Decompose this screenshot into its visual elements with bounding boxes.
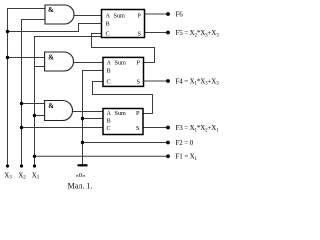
svg-text:«0»: «0»: [76, 172, 86, 179]
svg-text:F3 = X1*X2+X1: F3 = X1*X2+X1: [176, 124, 220, 133]
svg-text:Мал. 1.: Мал. 1.: [68, 181, 93, 190]
svg-text:S: S: [138, 30, 142, 37]
svg-text:&: &: [48, 54, 54, 61]
AND gate D2: [45, 52, 74, 71]
svg-text:A: A: [107, 110, 112, 117]
svg-text:F1 = X1: F1 = X1: [176, 153, 198, 162]
node X3-B1 junction: [6, 30, 9, 33]
wire X3 rail: [8, 9, 46, 167]
svg-text:F2 = 0: F2 = 0: [176, 139, 194, 147]
node zero-B3 junction: [81, 117, 84, 120]
wire zero rail: [83, 71, 104, 166]
svg-text:C: C: [106, 30, 110, 37]
svg-text:P: P: [137, 59, 141, 66]
node X3 input terminal: [6, 164, 9, 167]
wire F1 output line: [35, 155, 169, 157]
node F2 terminal: [166, 141, 170, 145]
node X1-D3 junction: [33, 114, 36, 117]
svg-text:Sum: Sum: [114, 12, 126, 19]
node X2-C3 junction: [20, 126, 23, 129]
svg-text:A: A: [106, 12, 111, 19]
svg-text:F5 = X2*X3+X3: F5 = X2*X3+X3: [176, 29, 220, 38]
wire X2 to Sum3 C input: [22, 127, 104, 129]
svg-text:B: B: [107, 118, 111, 125]
node F3 terminal: [166, 126, 170, 130]
node X3-D2 junction: [6, 56, 9, 59]
wire F2 output line: [83, 142, 169, 144]
wire gate D3 output to Sum3 A: [73, 111, 104, 113]
wire X3 to gate D2 input 1: [8, 57, 45, 59]
wire F6 output line: [145, 13, 169, 15]
svg-text:B: B: [107, 68, 111, 75]
wire X3 to Sum1 B input: [8, 24, 102, 32]
svg-text:S: S: [136, 125, 140, 132]
wire X1 rail: [35, 37, 102, 167]
wire X1 to gate D3 input 2: [35, 115, 45, 117]
wire F4 output line: [144, 80, 169, 82]
wire gate D2 output to Sum2 A: [74, 62, 104, 64]
node X1-F1 junction: [33, 155, 36, 158]
svg-text:P: P: [138, 12, 142, 19]
svg-text:F6: F6: [176, 10, 184, 18]
node F5 terminal: [166, 31, 170, 35]
svg-text:C: C: [107, 79, 111, 86]
svg-text:&: &: [48, 7, 54, 14]
svg-text:B: B: [106, 20, 110, 27]
node X1 input terminal: [33, 164, 36, 167]
wire F3 output line: [143, 127, 168, 129]
svg-text:F4 = X1*X3+X3: F4 = X1*X3+X3: [176, 77, 220, 86]
svg-text:Sum: Sum: [115, 59, 127, 66]
wire Sum2 P to Sum1 C carry loop: [92, 34, 155, 63]
wire F5 output line: [145, 32, 169, 34]
wire X2 to gate D3 input 1: [22, 103, 45, 105]
node F1 terminal: [166, 154, 170, 158]
wire X1 to gate D2 input 2: [35, 66, 45, 68]
ground zero symbol: [78, 164, 88, 166]
wire zero to Sum3 B input: [83, 118, 104, 120]
junction dots on rails: [6, 12, 170, 167]
adder U3 Sum block: [103, 109, 143, 135]
AND gate D1: [45, 5, 74, 24]
wire Sum3 P to Sum2 C carry loop: [93, 82, 153, 114]
node X2 input terminal: [20, 164, 23, 167]
node X2-D3 junction: [20, 102, 23, 105]
AND gate D3: [45, 101, 73, 121]
svg-text:S: S: [137, 79, 141, 86]
wire X2 rail: [22, 20, 46, 167]
node zero-F2 junction: [81, 141, 84, 144]
adder U1 Sum block: [102, 10, 145, 38]
node F4 terminal: [166, 79, 170, 83]
svg-text:Sum: Sum: [115, 110, 127, 117]
wire gate D1 output to Sum1 A: [74, 15, 102, 17]
svg-text:C: C: [107, 125, 111, 132]
adder U2 Sum block: [103, 57, 144, 86]
svg-text:&: &: [48, 103, 54, 110]
svg-text:P: P: [136, 110, 140, 117]
svg-text:A: A: [107, 59, 112, 66]
node F6 terminal: [166, 12, 170, 16]
